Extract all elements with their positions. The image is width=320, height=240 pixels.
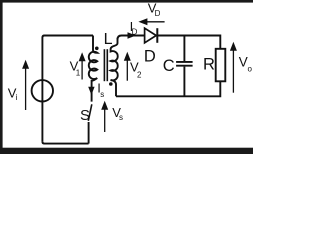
- svg-text:1: 1: [76, 68, 81, 77]
- arrow Vo: [230, 42, 237, 93]
- top border strip: [0, 0, 253, 3]
- svg-text:S: S: [80, 107, 90, 124]
- transformer core lines: [103, 49, 105, 81]
- node: primary polarity dot: [95, 47, 99, 51]
- arrowhead Is current (points down, on primary lead): [88, 87, 94, 95]
- svg-text:o: o: [248, 64, 253, 73]
- svg-text:D: D: [155, 9, 161, 18]
- wire: secondary top rail: [118, 36, 221, 49]
- svg-text:R: R: [203, 56, 215, 74]
- voltage source Vi circle: [32, 80, 53, 101]
- inductor L primary winding: [89, 36, 98, 102]
- arrowhead ID current (points right, on top wire): [128, 32, 137, 38]
- svg-text:2: 2: [137, 71, 142, 80]
- diode D: [145, 28, 158, 43]
- wire: secondary bottom rail: [116, 81, 220, 96]
- arrow VD (points left): [138, 18, 164, 25]
- arrow Vi: [22, 60, 29, 110]
- node: secondary polarity dot: [109, 82, 113, 86]
- arrow V1: [79, 52, 86, 79]
- switch S blade: [88, 104, 92, 121]
- left border strip: [0, 0, 3, 154]
- svg-text:s: s: [119, 113, 123, 122]
- wire: input loop left + top rail to transformer primary: [42, 36, 93, 142]
- inductor L secondary winding: [111, 38, 118, 96]
- capacitor C top lead: [183, 36, 185, 62]
- wire: input loop bottom rail: [42, 142, 88, 144]
- svg-text:i: i: [16, 93, 18, 102]
- svg-text:D: D: [144, 48, 156, 66]
- svg-text:V: V: [239, 54, 248, 69]
- svg-text:L: L: [104, 31, 113, 48]
- svg-text:C: C: [163, 57, 175, 75]
- capacitor C bottom lead: [183, 67, 185, 97]
- svg-text:D: D: [132, 27, 138, 36]
- switch S bottom lead: [88, 122, 90, 144]
- arrow V2: [124, 52, 131, 81]
- svg-text:s: s: [100, 90, 104, 99]
- resistor R box: [216, 49, 226, 82]
- bottom border strip: [0, 148, 253, 154]
- wire through source: [41, 80, 43, 101]
- capacitor C plates: [176, 62, 193, 66]
- arrow Vs: [101, 101, 108, 132]
